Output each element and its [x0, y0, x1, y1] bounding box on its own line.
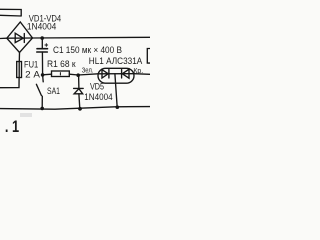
- node SA1-rail: [40, 107, 44, 111]
- fuse FU1: [18, 53, 20, 62]
- node C1-rail junction: [40, 36, 44, 40]
- wire bottom rail: [0, 107, 150, 110]
- svg-text:SA1: SA1: [47, 86, 60, 96]
- wire top rail (+): [33, 36, 151, 39]
- svg-text:Зел.: Зел.: [82, 65, 94, 74]
- LED red (right): [122, 69, 129, 78]
- wire AC input to bridge left corner: [0, 37, 7, 39]
- node junction left (C1/R1/SA1): [41, 73, 45, 77]
- svg-text:VD5: VD5: [90, 81, 104, 91]
- svg-text:1N4004: 1N4004: [27, 21, 56, 31]
- smudge artifact: [20, 113, 32, 117]
- wire input loop top-left: [0, 9, 21, 16]
- bridge rectifier VD1-VD4 diamond: [7, 22, 33, 53]
- svg-text:2 А: 2 А: [25, 69, 41, 79]
- node HL1-rail: [116, 105, 120, 109]
- svg-text:1N4004: 1N4004: [84, 92, 112, 102]
- wire HL1 common pin down: [115, 74, 117, 108]
- LED green (left): [102, 70, 108, 78]
- svg-text:HL1 АЛС331А: HL1 АЛС331А: [89, 55, 143, 66]
- svg-text:Кр.: Кр.: [133, 66, 143, 75]
- diode VD5: [78, 75, 80, 88]
- switch SA1: [42, 76, 45, 82]
- svg-text:FU1: FU1: [24, 59, 38, 69]
- svg-text:C1 150 мк × 400 В: C1 150 мк × 400 В: [53, 45, 122, 55]
- wire C1 down to junction: [41, 52, 43, 75]
- resistor R1: [43, 73, 52, 76]
- LED indicator HL1 rounded package: [78, 74, 98, 75]
- wire HL1 right anode out: [134, 73, 150, 76]
- diode symbol inside bridge: [7, 37, 33, 39]
- terminal bracket right edge: [147, 49, 150, 64]
- capacitor C1: [41, 38, 43, 48]
- node VD5-rail: [78, 107, 82, 111]
- node junction right (R1/VD5/HL1): [76, 73, 80, 77]
- svg-text:. 1: . 1: [5, 118, 19, 136]
- svg-text:R1 68 к: R1 68 к: [47, 59, 76, 69]
